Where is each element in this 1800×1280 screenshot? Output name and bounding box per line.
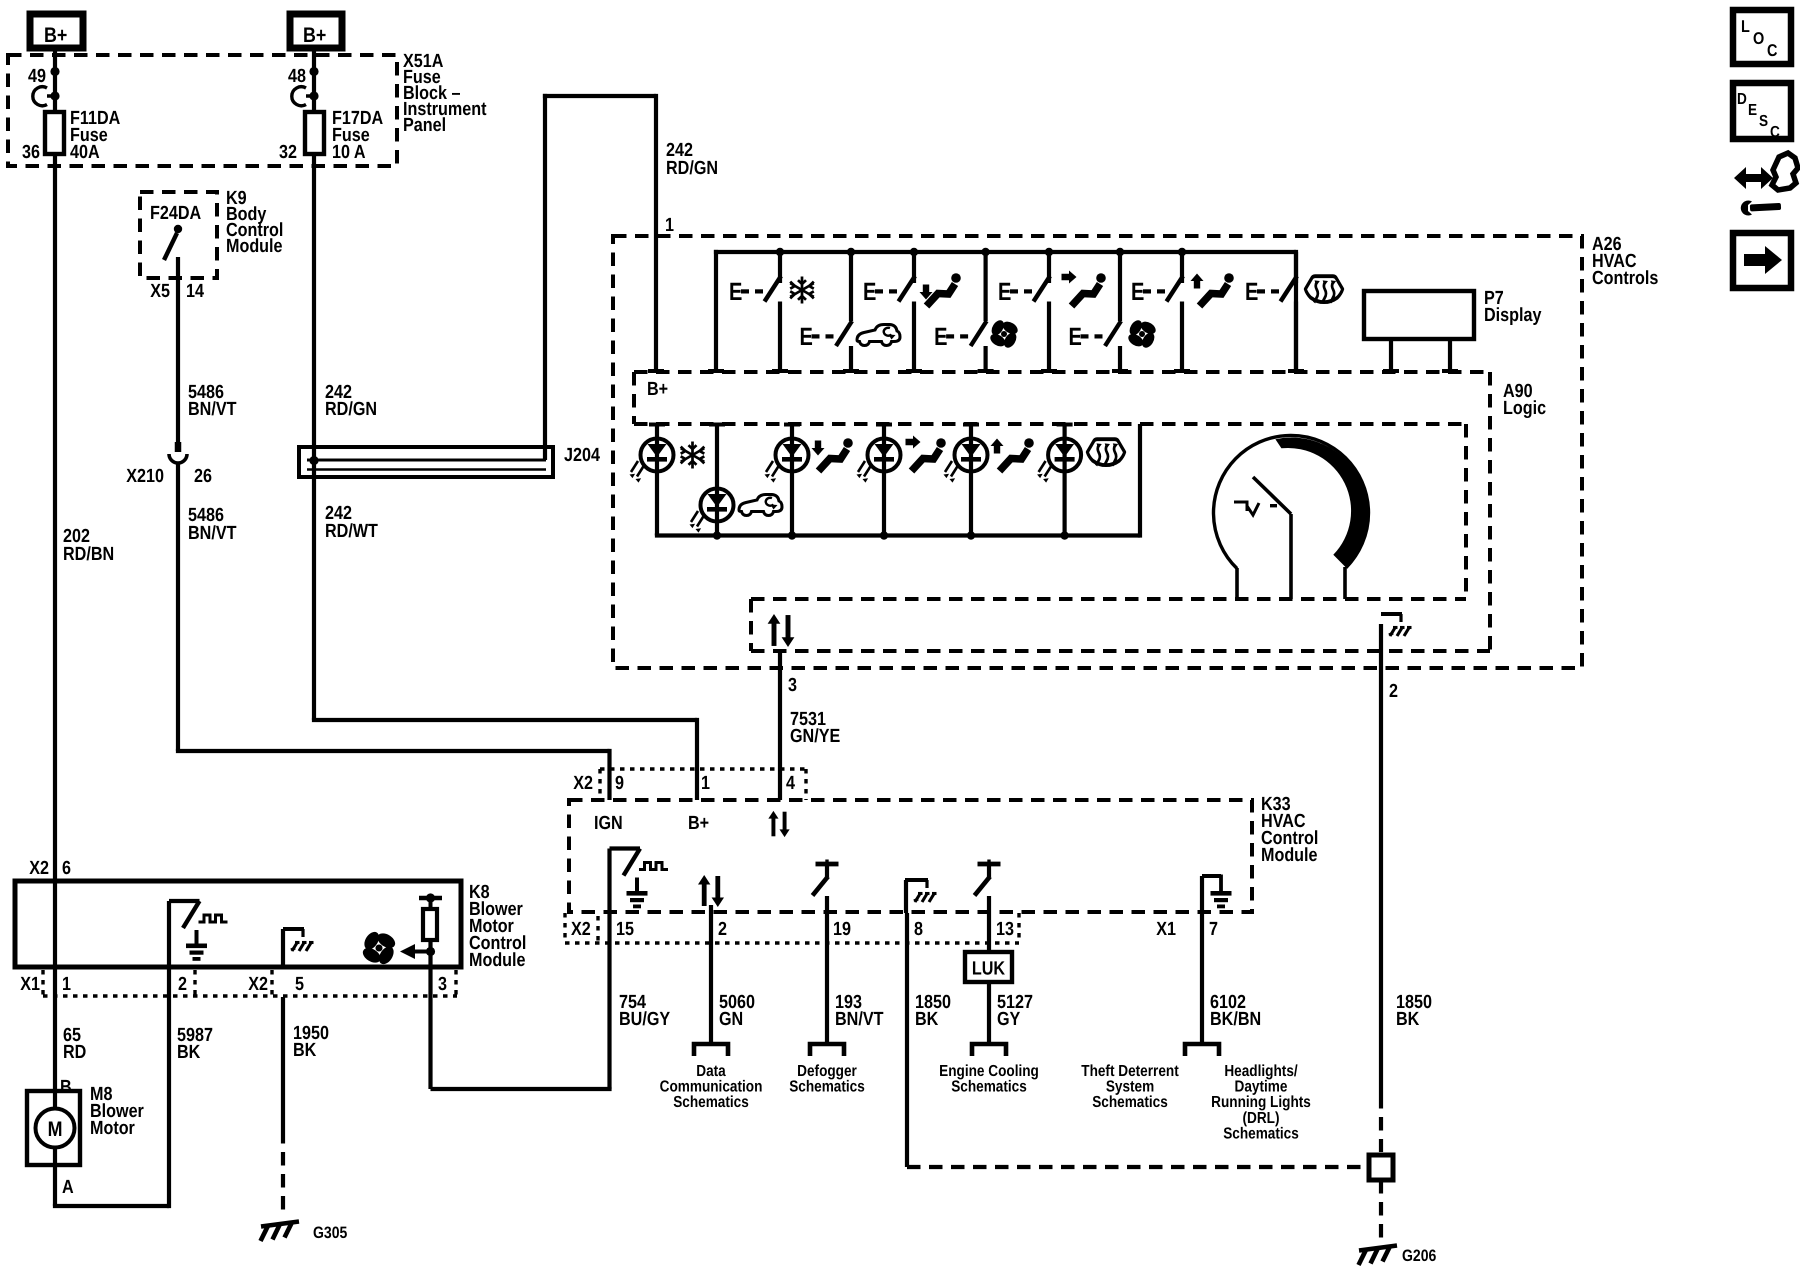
svg-text:4: 4: [786, 773, 795, 794]
module A26 HVAC Controls (dashed box): [613, 236, 1582, 668]
svg-text:32: 32: [279, 142, 297, 163]
legend icon forward arrow: [1733, 233, 1791, 288]
wire 242 RD/GN from fuse F17DA to splice J204: [312, 154, 316, 477]
wire 6102 BK/BN from K33 X1 pin 7: [1185, 913, 1219, 1056]
label K9 Body Control Module: [226, 188, 283, 257]
icon seat right-arrow at LED4: [906, 436, 946, 472]
svg-text:7: 7: [1209, 919, 1218, 940]
wire LED cathode bus: [655, 424, 1140, 540]
driver arrow to fan: [400, 944, 435, 959]
svg-text:40A: 40A: [70, 142, 100, 163]
wire 754 BU/GY from K33 pin 15 to K8 pin 3: [431, 913, 612, 1089]
switch driver symbol at K33 pin 19: [813, 860, 839, 914]
svg-text:(DRL): (DRL): [1242, 1110, 1279, 1127]
svg-text:BK/BN: BK/BN: [1210, 1009, 1261, 1030]
svg-text:1: 1: [665, 215, 674, 236]
data line symbol (up/down arrows) at K33 pin 2: [698, 875, 724, 913]
wire 7531 GN/YE from A90 to K33 pin 4: [778, 651, 782, 800]
svg-text:19: 19: [833, 919, 851, 940]
reference Defogger Schematics: [789, 1063, 865, 1096]
svg-text:BN/VT: BN/VT: [188, 523, 237, 544]
wire 1850 BK from A26 pin 2 to splice: [1379, 624, 1383, 1152]
splice junction block: [1369, 1155, 1393, 1180]
svg-text:RD/GN: RD/GN: [325, 399, 377, 420]
svg-text:X2: X2: [573, 773, 593, 794]
svg-text:3: 3: [438, 974, 447, 995]
label 242 RD/GN (left): [325, 382, 377, 420]
power symbol B+ (left): [30, 14, 83, 48]
svg-text:S: S: [1759, 113, 1768, 130]
label 1850 BK (left): [915, 992, 951, 1030]
svg-text:1: 1: [62, 974, 71, 995]
svg-text:IGN: IGN: [594, 813, 623, 834]
icon recirculation car at LED2: [739, 495, 782, 516]
switch S1 (A/C request) in A26: [729, 252, 788, 372]
wire B+ left to fuse F11DA: [50, 48, 59, 112]
svg-text:Daytime: Daytime: [1235, 1079, 1288, 1096]
svg-text:J204: J204: [564, 445, 600, 466]
reference Headlights Daytime Running Lights (DRL) Schematics: [1211, 1063, 1311, 1142]
svg-text:A: A: [62, 1177, 74, 1198]
svg-text:3: 3: [788, 675, 797, 696]
wire 1850 BK from K33 pin 8 to splice: [907, 913, 1363, 1167]
legend icon LOC: [1733, 10, 1791, 64]
svg-text:Schematics: Schematics: [789, 1079, 865, 1096]
icon snowflake at LED1: [681, 442, 705, 469]
svg-text:B+: B+: [303, 24, 326, 47]
connector strip X1/X2 of K8: [43, 970, 457, 996]
svg-text:Logic: Logic: [1503, 398, 1546, 419]
svg-text:E: E: [729, 278, 742, 306]
svg-text:5: 5: [295, 974, 304, 995]
label X51A Fuse Block - Instrument Panel: [403, 51, 487, 136]
svg-text:6: 6: [62, 858, 71, 879]
label 202 RD/BN: [63, 526, 114, 565]
icon fan (left): [988, 318, 1020, 350]
svg-text:X5: X5: [150, 281, 170, 302]
wire motor return to K8 pin 2 (5987 BK): [53, 997, 169, 1208]
LED indicator 1 in A90: [630, 424, 674, 536]
svg-text:X2: X2: [29, 858, 49, 879]
label 5127 GY: [997, 992, 1033, 1030]
icon windshield defrost: [1305, 276, 1342, 302]
icon seat up-arrow at LED5: [991, 438, 1034, 471]
module A90 Logic (dashed outline): [634, 372, 1490, 651]
label F11DA Fuse 40A: [70, 108, 121, 163]
data line symbol (up/down arrows) at A26 pin 3: [768, 614, 795, 647]
svg-text:GN/YE: GN/YE: [790, 726, 840, 747]
switch S8 (fan high) in A26: [1069, 252, 1129, 372]
reference Data Communication Schematics: [660, 1063, 763, 1111]
svg-text:Headlights/: Headlights/: [1224, 1063, 1298, 1080]
icon fan (right): [1126, 318, 1158, 350]
wire 242 RD/WT from J204 to K33 pin 1: [312, 477, 697, 800]
switch S2 (mode seat-down) in A26: [863, 252, 922, 372]
svg-text:X210: X210: [126, 466, 164, 487]
svg-text:Engine Cooling: Engine Cooling: [939, 1063, 1039, 1080]
svg-text:L: L: [1741, 17, 1750, 36]
svg-text:E: E: [800, 323, 813, 351]
connector X2 (bottom) of K33: [565, 913, 1019, 943]
svg-text:BN/VT: BN/VT: [835, 1009, 884, 1030]
label K33 HVAC Control Module: [1261, 794, 1318, 866]
legend icon wiring repair (arrows and wrench): [1734, 153, 1798, 216]
svg-text:BK: BK: [915, 1009, 939, 1030]
fuse F17DA 10A: [305, 112, 324, 154]
svg-text:RD/GN: RD/GN: [666, 158, 718, 179]
wire plain array wire foot: [708, 369, 724, 373]
switch S7 (fan low) in A26: [934, 252, 994, 372]
svg-text:RD/BN: RD/BN: [63, 544, 114, 565]
svg-text:BK: BK: [177, 1042, 201, 1063]
connector X2 (top) of K33: [600, 769, 806, 800]
svg-text:2: 2: [718, 919, 727, 940]
svg-text:Schematics: Schematics: [1223, 1125, 1299, 1142]
label 7531 GN/YE: [790, 709, 840, 747]
svg-text:X2: X2: [248, 974, 268, 995]
in-line connector X210 pin 26: [169, 442, 187, 463]
icon seat with down arrow: [920, 273, 961, 306]
fuse block X51A Fuse Block - Instrument Panel (dashed box): [8, 55, 397, 166]
label 5486 BN/VT (lower): [188, 505, 237, 544]
svg-text:Motor: Motor: [90, 1118, 135, 1139]
svg-text:Communication: Communication: [660, 1079, 763, 1096]
wire 193 BN/VT from K33 pin 19: [810, 913, 844, 1056]
switch driver symbol at K33 pin 13: [975, 860, 1001, 914]
ground G305: [261, 1222, 300, 1242]
ground symbol at K33 pin 7 (X1): [1202, 875, 1232, 914]
svg-text:Defogger: Defogger: [797, 1063, 857, 1080]
wire 5486 BN/VT from X210 to K33 pin 9: [176, 463, 610, 800]
connector LUK at K33 pin 13: [965, 952, 1012, 982]
wire B+ right to fuse F17DA: [309, 48, 318, 112]
svg-text:BU/GY: BU/GY: [619, 1009, 670, 1030]
blower fan icon in K8: [360, 929, 398, 967]
module K8 Blower Motor Control Module (solid box): [15, 881, 461, 967]
svg-text:RD: RD: [63, 1042, 86, 1063]
icon windshield defrost at LED6: [1087, 439, 1124, 465]
label 754 BU/GY: [619, 992, 670, 1030]
icon recirculation car: [857, 325, 900, 346]
module K9 Body Control Module (dashed box): [140, 192, 217, 278]
wire switch supply bus inside A26: [714, 250, 1296, 372]
svg-text:E: E: [1748, 102, 1757, 119]
svg-text:F24DA: F24DA: [150, 203, 201, 224]
rotary blower speed control in A90: [1213, 435, 1368, 599]
svg-text:O: O: [1753, 29, 1764, 48]
icon seat down-arrow at LED3: [812, 438, 853, 471]
reference Engine Cooling Schematics: [939, 1063, 1039, 1096]
icon seat with right arrow: [1062, 271, 1106, 307]
label M8 Blower Motor: [90, 1084, 144, 1139]
svg-text:9: 9: [615, 773, 624, 794]
reference Theft Deterrent System Schematics: [1081, 1063, 1179, 1111]
wire 1950 BK from K8 pin 5 to ground G305: [281, 997, 285, 1215]
svg-text:D: D: [1737, 91, 1747, 108]
svg-text:2: 2: [178, 974, 187, 995]
label F17DA Fuse 10 A: [332, 108, 383, 163]
junction dots on switch bus: [776, 248, 1186, 256]
switch S5 (defrost) in A26: [1245, 252, 1304, 372]
wire splice to ground G206 (dashed): [1379, 1180, 1383, 1242]
svg-text:8: 8: [914, 919, 923, 940]
wire 5486 BN/VT from K9 to X210: [176, 257, 180, 450]
label A90 Logic: [1503, 381, 1546, 419]
label 1950 BK: [293, 1023, 329, 1061]
svg-text:X1: X1: [20, 974, 40, 995]
splice pack J204: [299, 447, 553, 477]
label 6102 BK/BN: [1210, 992, 1261, 1030]
connector hook at pin 48: [292, 87, 319, 106]
label P7 Display: [1484, 288, 1542, 326]
wire J204 up-over to A26 pin 1 (242 RD/GN): [543, 94, 664, 460]
svg-text:GN: GN: [719, 1009, 743, 1030]
icon seat with up arrow: [1191, 273, 1234, 306]
svg-text:10 A: 10 A: [332, 142, 366, 163]
svg-text:Module: Module: [469, 950, 526, 971]
motor M8 Blower Motor: [27, 1091, 80, 1165]
svg-text:48: 48: [288, 66, 306, 87]
svg-text:C: C: [1770, 124, 1780, 141]
svg-text:Data: Data: [696, 1063, 726, 1080]
svg-text:Theft Deterrent: Theft Deterrent: [1081, 1063, 1179, 1080]
wire 5060 GN from K33 pin 2: [694, 913, 728, 1056]
svg-text:Schematics: Schematics: [951, 1079, 1027, 1096]
module K33 HVAC Control Module (dashed box): [569, 800, 1252, 912]
label 242 RD/WT: [325, 503, 378, 542]
svg-text:LUK: LUK: [972, 959, 1005, 980]
svg-text:G206: G206: [1402, 1247, 1436, 1265]
svg-text:Schematics: Schematics: [673, 1094, 749, 1111]
connector X2 pin 6 of K8: [29, 858, 71, 879]
svg-text:B+: B+: [688, 813, 709, 834]
svg-text:Schematics: Schematics: [1092, 1094, 1168, 1111]
svg-text:E: E: [1131, 278, 1144, 306]
svg-text:BN/VT: BN/VT: [188, 399, 237, 420]
svg-text:14: 14: [186, 281, 204, 302]
label 242 RD/GN (top right): [666, 140, 718, 179]
svg-text:B: B: [60, 1077, 72, 1098]
legend icon DESC: [1733, 83, 1791, 141]
svg-text:RD/WT: RD/WT: [325, 521, 378, 542]
connector X5 pin 14: [150, 281, 204, 302]
wire 202 RD/BN from fuse F11DA to K8 pin 6: [53, 154, 57, 881]
svg-text:13: 13: [996, 919, 1014, 940]
svg-text:X2: X2: [571, 919, 591, 940]
svg-text:B+: B+: [647, 379, 668, 400]
svg-text:2: 2: [1389, 681, 1398, 702]
ground symbol at K33 pin 8: [905, 880, 937, 913]
svg-text:M: M: [48, 1118, 63, 1141]
connector hook at pin 49: [33, 87, 60, 106]
svg-text:E: E: [998, 278, 1011, 306]
wire 5127 GY from LUK: [972, 913, 1006, 1056]
label X210 26: [126, 466, 212, 487]
svg-text:Module: Module: [226, 236, 283, 257]
svg-text:Controls: Controls: [1592, 268, 1658, 289]
label 65 RD: [63, 1025, 86, 1063]
label 1850 BK (right): [1396, 992, 1432, 1030]
LED indicator 4 in A90: [857, 424, 901, 536]
label 5486 BN/VT (upper): [188, 382, 237, 420]
svg-text:Running Lights: Running Lights: [1211, 1094, 1311, 1111]
label 193 BN/VT: [835, 992, 884, 1030]
LED indicator 6 in A90: [1037, 424, 1081, 536]
ground G206: [1359, 1246, 1398, 1266]
LED indicator 5 in A90: [944, 424, 988, 536]
ground symbol at K8 pin 5: [283, 929, 314, 967]
svg-text:26: 26: [194, 466, 212, 487]
switch S4 (mode seat-up) in A26: [1131, 252, 1190, 372]
svg-text:X1: X1: [1156, 919, 1176, 940]
resistor (speed control) in K8: [419, 893, 442, 967]
label A26 HVAC Controls: [1592, 234, 1658, 289]
PWM low-side driver symbol at K8 pin 2: [169, 901, 228, 997]
fuse F11DA 40A: [45, 112, 64, 154]
PWM low-side driver symbol at K33 pin 15: [610, 849, 669, 914]
data line symbol (up/down arrows) below pin 4: [768, 811, 789, 837]
svg-text:Module: Module: [1261, 845, 1318, 866]
svg-text:C: C: [1767, 41, 1777, 60]
ground symbol inside A90 at pin 2: [1381, 614, 1412, 636]
svg-text:E: E: [1069, 323, 1082, 351]
svg-text:G305: G305: [313, 1224, 347, 1242]
power symbol B+ (right): [290, 14, 342, 48]
display P7: [1364, 291, 1474, 372]
svg-text:Panel: Panel: [403, 115, 446, 136]
switch S3 (mode seat-vent) in A26: [998, 252, 1057, 372]
svg-text:49: 49: [28, 66, 46, 87]
label 5987 BK: [177, 1025, 213, 1063]
switch S6 (recirculation) in A26: [800, 252, 860, 372]
icon snowflake (A/C): [790, 277, 814, 304]
svg-text:15: 15: [616, 919, 634, 940]
svg-text:36: 36: [22, 142, 40, 163]
svg-text:E: E: [934, 323, 947, 351]
svg-text:B+: B+: [44, 24, 67, 47]
svg-text:GY: GY: [997, 1009, 1021, 1030]
label 5060 GN: [719, 992, 755, 1030]
switch F24DA inside K9: [164, 225, 182, 260]
svg-text:BK: BK: [293, 1040, 317, 1061]
LED indicator 3 in A90: [765, 424, 809, 536]
svg-text:Display: Display: [1484, 305, 1542, 326]
svg-text:BK: BK: [1396, 1009, 1420, 1030]
svg-text:1: 1: [701, 773, 710, 794]
svg-text:System: System: [1106, 1079, 1154, 1096]
LED indicator 2 in A90: [690, 424, 734, 536]
wire 65 RD from K8 pin 1 to blower motor: [53, 881, 57, 1091]
label K8 Blower Motor Control Module: [469, 882, 526, 971]
svg-text:E: E: [863, 278, 876, 306]
svg-text:E: E: [1245, 278, 1258, 306]
